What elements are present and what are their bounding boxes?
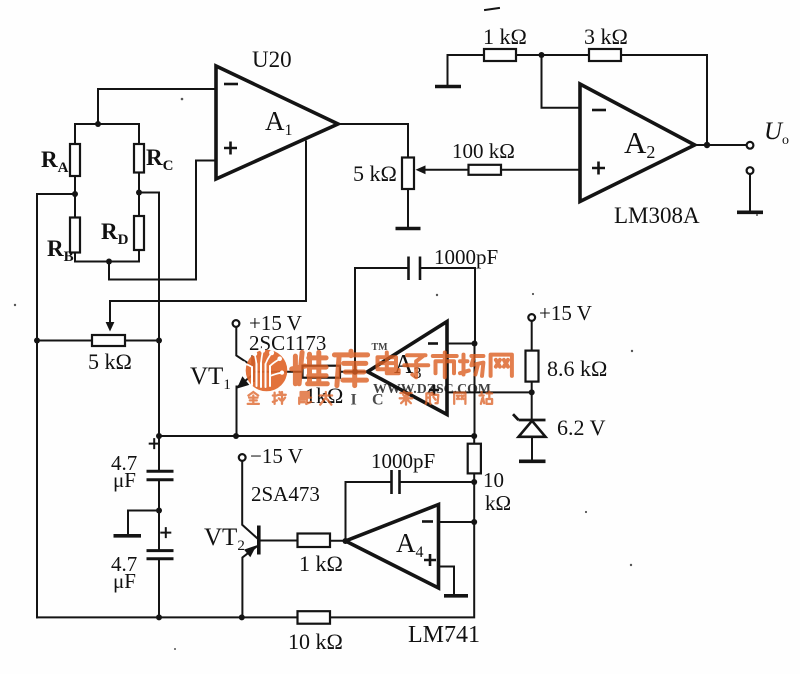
wire A1 inverting input to bridge top (98, 89, 216, 124)
resistor RA (70, 144, 80, 176)
svg-text:2SA473: 2SA473 (251, 482, 320, 506)
node bridge left mid (72, 191, 78, 197)
resistor 10 kOhm vertical (468, 444, 481, 474)
op-amp A4 LM741 (346, 505, 439, 589)
wire 3k to A2 output feedback (621, 55, 707, 145)
wire A4 inverting input (439, 521, 475, 523)
capacitor column leads 4.7uF (158, 436, 160, 470)
ground left of 1k (435, 85, 461, 89)
wire VT2 base resistor to A4 output (330, 540, 346, 542)
watermark char zi (404, 355, 428, 377)
resistor 1 kOhm top (484, 49, 516, 61)
svg-text:U20: U20 (252, 47, 292, 72)
watermark logo circle (241, 348, 287, 392)
node x159 pot (156, 338, 162, 344)
wire bridge left branch (74, 124, 76, 262)
svg-text:10: 10 (483, 468, 504, 492)
capacitor C1 4.7uF plates (147, 470, 174, 473)
svg-text:10 kΩ: 10 kΩ (288, 629, 343, 654)
node left rail pot (34, 338, 40, 344)
op-amp A2 LM308A (580, 84, 695, 202)
wire A3 feedback loop with 1000pF (355, 268, 407, 372)
node A3 inverting input junction (472, 341, 478, 347)
wire A1 feedback tap to wiper arrow (110, 142, 306, 325)
resistor 8.6 kOhm (526, 351, 539, 382)
svg-text:kΩ: kΩ (485, 491, 511, 515)
potentiometer 5 kOhm vertical (402, 158, 414, 190)
wire ground stub left of 1k (448, 55, 485, 85)
node zener top (529, 389, 535, 395)
transistor VT2 2SA473 (239, 454, 298, 617)
wire A3 inverting input (447, 343, 475, 345)
A2 plus (592, 162, 605, 175)
plus sign C1 (150, 439, 159, 448)
A1 plus (224, 142, 237, 155)
resistor RD (134, 216, 144, 250)
node bridge right mid (136, 190, 142, 196)
terminal +15V zener branch (528, 314, 535, 321)
A2 minus (592, 109, 606, 112)
A3 plus (429, 385, 439, 395)
A4 plus (424, 554, 436, 566)
wire 10k vertical leads (473, 436, 475, 482)
wire A2 output to Uo terminal (695, 144, 747, 146)
ground stub between caps (128, 511, 159, 535)
node bottom rail VT2 emitter (239, 614, 245, 620)
watermark char ku (334, 351, 367, 385)
svg-text:1 kΩ: 1 kΩ (483, 24, 527, 49)
wire A2 noninverting input run with 100k (424, 169, 580, 171)
svg-text:8.6 kΩ: 8.6 kΩ (547, 356, 607, 381)
svg-text:C: C (372, 392, 384, 409)
transistor VT1 2SC1173 (233, 320, 303, 436)
svg-text:μF: μF (113, 569, 136, 593)
svg-text:5 kΩ: 5 kΩ (88, 349, 132, 374)
watermark char cai (400, 392, 413, 405)
svg-text:100 kΩ: 100 kΩ (452, 139, 515, 163)
wire x474 down (473, 482, 475, 522)
capacitor 1000pF A4 plates (390, 470, 393, 494)
wire left rail (36, 194, 38, 617)
wire bridge left mid to left rail (37, 193, 75, 195)
wire node to A2 inverting input (542, 55, 581, 108)
bottom rail (37, 616, 298, 618)
node bridge top (95, 121, 101, 127)
zener diode 6.2V (513, 414, 546, 461)
wire bridge bottom (75, 261, 139, 263)
terminal +15V VT1 (233, 320, 240, 327)
watermark char wei (292, 352, 328, 383)
wire Uo lower terminal to ground (749, 174, 751, 212)
A1 minus (224, 83, 238, 86)
A3 minus (428, 342, 438, 345)
wire 5k mid pot left lead (37, 340, 92, 342)
wire 5k pot bottom to ground (407, 189, 409, 227)
op-amp A3 (368, 322, 448, 415)
svg-text:1 kΩ: 1 kΩ (299, 551, 343, 576)
svg-text:TM: TM (372, 342, 389, 353)
resistor 3 kOhm (589, 49, 621, 61)
watermark char quan (248, 392, 259, 404)
ground below 5k pot (396, 227, 421, 231)
svg-text:−15 V: −15 V (250, 444, 303, 468)
wire 1k to 3k top run (516, 54, 589, 56)
node between caps (156, 508, 162, 514)
watermark char zhan (480, 392, 493, 404)
watermark char da (320, 392, 333, 405)
plus sign C2 (161, 528, 170, 537)
wire A4 noninverting input to ground (439, 567, 455, 595)
svg-text:1000pF: 1000pF (371, 449, 435, 473)
svg-text:5 kΩ: 5 kΩ (353, 161, 397, 186)
svg-text:μF: μF (113, 468, 136, 492)
resistor 1 kOhm VT1 base (303, 366, 341, 378)
capacitor 1000pF A3 plates (407, 257, 410, 281)
node 10k bottom / 1000pF A4 (471, 479, 477, 485)
watermark char qiu (273, 392, 286, 404)
node A3 feedback tap (352, 369, 358, 375)
wire A4 1000pF feedback (346, 482, 475, 541)
svg-text:+15 V: +15 V (539, 301, 592, 325)
node bridge bottom (106, 259, 112, 265)
svg-text:I: I (351, 392, 357, 409)
terminal Uo ground side (747, 167, 754, 174)
node mid rail 10k (471, 433, 477, 439)
svg-text:3 kΩ: 3 kΩ (584, 24, 628, 49)
watermark char gou (426, 393, 439, 404)
watermark char wang (491, 355, 512, 376)
wire A1 output to 5k pot (338, 124, 408, 158)
svg-text:6.2 V: 6.2 V (557, 415, 606, 440)
wire VT1 base resistor to A3 output (340, 371, 368, 373)
arrowhead at pot from 100k (416, 165, 426, 174)
scan specks (14, 98, 758, 650)
wire mid rail (159, 435, 474, 437)
terminal -15V VT2 (239, 454, 246, 461)
wire A3 noninverting input to zener node (447, 391, 532, 393)
ground below Uo (737, 211, 763, 215)
resistor RB (70, 218, 80, 253)
watermark char chang (460, 355, 483, 376)
node mid rail VT1 emitter (233, 433, 239, 439)
resistor 100 kOhm (469, 165, 502, 175)
capacitor C2 4.7uF plates (147, 549, 174, 552)
A4 minus (422, 520, 433, 523)
op-amp A1 U20 (216, 66, 338, 179)
svg-text:LM741: LM741 (408, 622, 480, 648)
resistor 1 kOhm VT2 base (298, 534, 331, 548)
svg-text:LM308A: LM308A (614, 203, 700, 228)
watermark char zui (299, 392, 311, 404)
resistor 10 kOhm bottom (298, 611, 331, 624)
ground A4 noninverting (444, 594, 468, 598)
wire bridge right branch (138, 124, 140, 262)
node A2 output (704, 142, 710, 148)
node mid rail x159 (156, 433, 162, 439)
svg-text:U: U (764, 118, 784, 145)
watermark char wang2 (454, 393, 465, 404)
wire 5k mid pot right lead (125, 340, 159, 342)
scan speck (484, 8, 500, 10)
svg-text:o: o (782, 133, 789, 148)
wire bridge bottom to A1 noninverting input (109, 161, 216, 280)
wire bridge top (75, 123, 139, 125)
node bottom rail cap column (156, 614, 162, 620)
node between 1k and 3k (539, 52, 545, 58)
watermark char dian (378, 353, 399, 374)
watermark char shi (433, 353, 457, 378)
ground between caps (114, 534, 142, 538)
wire bridge right mid to vertical x159 (139, 193, 159, 437)
terminal Uo (747, 142, 754, 149)
wire x474 down from A3 input to mid rail (474, 344, 476, 437)
node A4 output (343, 538, 349, 544)
node A4 inverting junction (471, 519, 477, 525)
arrowhead wiper (106, 322, 115, 332)
potentiometer 5 kOhm mid (92, 335, 125, 346)
svg-text:1000pF: 1000pF (434, 245, 498, 269)
resistor RC (134, 144, 144, 173)
